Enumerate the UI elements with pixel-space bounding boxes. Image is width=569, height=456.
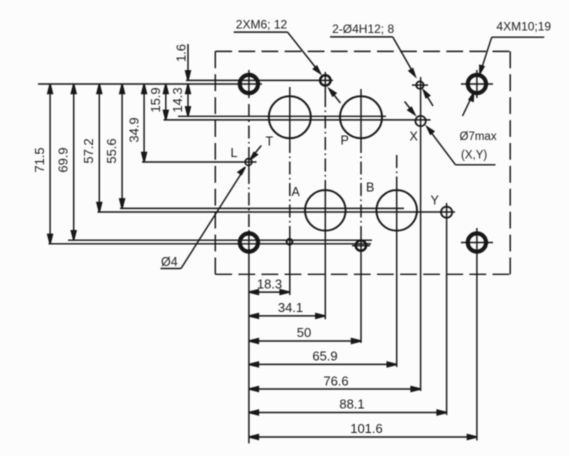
column centerline left bolts x=248.9: [248, 70, 250, 443]
svg-text:Ø7max: Ø7max: [460, 131, 497, 143]
svg-text:1.6: 1.6: [174, 44, 189, 62]
svg-text:14.3: 14.3: [170, 87, 185, 112]
pin hole 4H12 top (at X column): [412, 81, 428, 88]
leader for 2XM6 label: [234, 32, 341, 103]
dim line 69.9 vertical x=73.7: [71, 84, 76, 240]
bolt hole M10 top-right: [467, 74, 488, 95]
dim line 57.2 vertical x=99.3: [97, 84, 102, 212]
dim line 34.9 vertical x=144.1: [142, 84, 147, 162]
svg-text:69.9: 69.9: [56, 147, 71, 172]
dim line 50 horizontal y=341: [249, 339, 361, 344]
M6 hole bottom (at P column): [352, 240, 370, 250]
row line y=84 top bolt row baseline: [38, 83, 262, 85]
row line y=240.2 (69.9 row): [68, 239, 372, 241]
plate outline (valve body, phantom dashed rectangle): [215, 51, 510, 274]
dim line 71.5 vertical x=50.1: [48, 84, 53, 244]
svg-text:65.9: 65.9: [312, 349, 337, 364]
row line y=116.3 (14.3 row through T,P): [178, 115, 386, 117]
dim line 55.6 vertical x=122.1: [120, 84, 125, 208]
svg-text:P: P: [341, 134, 349, 148]
pilot hole X: [415, 116, 425, 126]
port T (big circle): [269, 96, 311, 138]
dim line 34.1 horizontal y=315.9: [249, 314, 325, 319]
port P (big circle): [340, 96, 382, 138]
svg-text:L: L: [231, 146, 238, 160]
column centerline T x=289.8: [289, 87, 291, 295]
crosshair top-right bolt horizontal: [461, 83, 493, 85]
svg-text:34.9: 34.9: [127, 117, 142, 142]
svg-text:Ø4: Ø4: [161, 255, 178, 269]
port B (big circle): [376, 190, 417, 231]
column centerline P x=361: [360, 89, 362, 343]
dim line 15.9 vertical x=165.8: [163, 84, 168, 120]
M6 hole top (at A column): [320, 75, 330, 85]
svg-text:18.3: 18.3: [257, 277, 282, 292]
svg-text:15.9: 15.9: [148, 87, 163, 112]
bolt hole M10 bottom-right: [467, 232, 488, 253]
svg-text:76.6: 76.6: [323, 374, 348, 389]
svg-text:2-Ø4H12; 8: 2-Ø4H12; 8: [332, 22, 394, 36]
svg-text:101.6: 101.6: [350, 421, 383, 436]
svg-text:T: T: [266, 135, 274, 149]
row line y=208.4 (55.6 row through A,B): [120, 207, 404, 209]
svg-text:A: A: [292, 185, 301, 199]
crosshair bottom-right bolt horizontal: [461, 242, 493, 244]
pilot hole Y: [441, 207, 452, 218]
column centerline B x=396.7: [396, 155, 398, 367]
svg-text:55.6: 55.6: [104, 138, 119, 163]
bolt hole M10 bottom-left: [239, 232, 260, 253]
dim line 18.3 horizontal y=292.1: [249, 290, 290, 295]
port A (big circle): [305, 190, 346, 231]
row line y=243.8 (71.5 bottom bolt row): [49, 243, 372, 245]
leader for 04 label (to L hole): [161, 146, 262, 269]
leader for 4XM10 label: [463, 37, 545, 116]
svg-text:Y: Y: [431, 194, 440, 208]
leader for 2-04H12 label: [330, 37, 433, 106]
svg-text:34.1: 34.1: [278, 300, 303, 315]
leader for 07max (X,Y) label: [405, 102, 496, 165]
dim line 88.1 horizontal y=412.5: [249, 410, 447, 415]
column centerline right bolts x=476.9: [476, 70, 478, 441]
row line y=212 (57.2 row through A,B,Y): [98, 211, 456, 213]
dim line 14.3 and 1.6 vertical x=188: [186, 44, 191, 116]
row line y=162 (34.9 row through L): [142, 161, 257, 163]
svg-text:71.5: 71.5: [32, 147, 47, 172]
svg-text:(X,Y): (X,Y): [461, 150, 487, 162]
bolt hole M10 top-left: [239, 74, 260, 95]
row line y=119.9 (15.9 row through T,P,X): [164, 119, 431, 121]
svg-text:X: X: [410, 130, 419, 144]
dim line 101.6 horizontal y=437: [249, 435, 477, 440]
column centerline A x=325.3: [324, 72, 326, 319]
svg-text:2XM6; 12: 2XM6; 12: [236, 18, 288, 32]
drain hole L (diam 4): [245, 159, 252, 166]
svg-text:B: B: [366, 181, 374, 195]
pin hole 4H12 bottom (at T column): [287, 239, 293, 245]
row line y=80.4 M6 row: [186, 79, 333, 81]
svg-text:88.1: 88.1: [339, 397, 364, 412]
dim line 76.6 horizontal y=389: [249, 387, 421, 392]
dim line 65.9 horizontal y=365.5: [249, 362, 397, 367]
column centerline Y x=446.6: [446, 203, 448, 415]
column centerline X x=420.6: [420, 77, 422, 391]
svg-text:50: 50: [297, 325, 311, 340]
svg-text:4XM10;19: 4XM10;19: [496, 20, 551, 34]
svg-text:57.2: 57.2: [81, 138, 96, 163]
